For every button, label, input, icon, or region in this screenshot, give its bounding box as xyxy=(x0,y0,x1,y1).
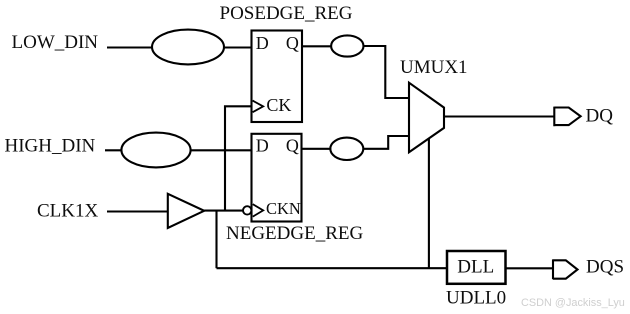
wire CLK1X to clock buffer xyxy=(107,210,168,212)
wire mux output to DQ pad xyxy=(444,115,555,117)
svg-text:CK: CK xyxy=(266,95,291,115)
wire mux select down to clock net xyxy=(428,138,430,268)
svg-text:NEGEDGE_REG: NEGEDGE_REG xyxy=(226,223,363,244)
wire Q of POSEDGE_REG to output bubble xyxy=(302,45,332,47)
svg-text:CSDN @Jackiss_Lyu: CSDN @Jackiss_Lyu xyxy=(521,297,625,309)
svg-text:UDLL0: UDLL0 xyxy=(446,288,506,309)
svg-text:DLL: DLL xyxy=(457,257,494,278)
svg-text:CKN: CKN xyxy=(266,199,301,218)
svg-text:HIGH_DIN: HIGH_DIN xyxy=(5,136,96,157)
wire bubble to UMUX1 input 2 (with jog up) xyxy=(363,136,410,149)
mux UMUX1 trapezoid xyxy=(409,83,444,153)
flip-flop NEGEDGE_REG box xyxy=(252,134,302,222)
wire buffer output to CKN bubble xyxy=(204,210,242,212)
flip-flop POSEDGE_REG box xyxy=(252,31,303,123)
wire bubble to D pin of POSEDGE_REG xyxy=(224,46,253,48)
svg-text:CLK1X: CLK1X xyxy=(37,201,99,222)
svg-text:LOW_DIN: LOW_DIN xyxy=(12,32,99,53)
svg-text:Q: Q xyxy=(286,33,299,53)
svg-text:DQS: DQS xyxy=(586,256,624,277)
output pad symbol DQS xyxy=(553,259,578,279)
output bubble (small ellipse) of NEGEDGE_REG xyxy=(330,138,363,160)
wire DLL output to DQS pad xyxy=(506,267,554,269)
clock pin triangle CK of POSEDGE_REG xyxy=(253,101,264,113)
wire riser up to CK pin xyxy=(225,106,252,210)
clock pin triangle CKN of NEGEDGE_REG xyxy=(253,204,263,216)
wire HIGH_DIN to input bubble xyxy=(105,149,122,151)
svg-text:UMUX1: UMUX1 xyxy=(400,57,468,78)
DLL box xyxy=(447,251,506,284)
delay bubble (ellipse) on HIGH_DIN xyxy=(121,133,190,168)
wire riser down toward DLL xyxy=(215,211,217,269)
wire bubble to D pin of NEGEDGE_REG xyxy=(191,149,253,151)
wire clock feed to DLL input xyxy=(217,267,448,269)
clock buffer triangle xyxy=(168,194,204,228)
wire bubble to UMUX1 input 1 (with corner) xyxy=(364,46,411,98)
svg-text:D: D xyxy=(256,136,269,156)
delay bubble (ellipse) on LOW_DIN xyxy=(152,30,224,65)
svg-text:POSEDGE_REG: POSEDGE_REG xyxy=(220,3,353,24)
output pad symbol DQ xyxy=(554,107,580,127)
wire LOW_DIN to input bubble xyxy=(107,46,153,48)
svg-text:Q: Q xyxy=(286,136,299,156)
wire Q of NEGEDGE_REG to output bubble xyxy=(302,148,332,150)
inversion bubble on CKN pin xyxy=(243,206,251,214)
svg-text:DQ: DQ xyxy=(586,106,614,127)
svg-text:D: D xyxy=(256,33,269,53)
output bubble (small ellipse) of POSEDGE_REG xyxy=(331,35,363,56)
